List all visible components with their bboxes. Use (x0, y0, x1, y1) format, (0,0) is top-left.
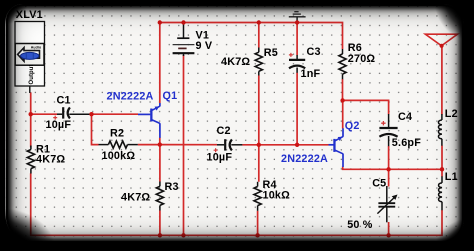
variable capacitor C5 (377, 186, 397, 222)
svg-text:1nF: 1nF (301, 68, 321, 80)
junction Q1 collector / R2 / R3 / C2 node (158, 142, 162, 146)
svg-text:C1: C1 (57, 95, 71, 107)
wire battery column (183, 55, 185, 235)
svg-text:4K7Ω: 4K7Ω (36, 154, 65, 166)
svg-text:L2: L2 (445, 108, 458, 120)
junction C3 bottom / bias row node (295, 143, 299, 147)
transistor Q2 (329, 128, 344, 167)
junction V1 bottom on ground rail (181, 233, 185, 237)
wire bias row (138, 144, 160, 146)
svg-text:Q1: Q1 (163, 90, 178, 102)
junction L2 / L1 / emitter row node (440, 167, 444, 171)
svg-text:C5: C5 (372, 178, 386, 190)
wire R6 column / Q2 collector (342, 79, 344, 100)
resistor R1 (27, 146, 34, 174)
svg-text:270Ω: 270Ω (348, 53, 376, 65)
inductor L2 (438, 114, 441, 146)
wire C1 row (31, 113, 57, 115)
junction R6 bottom / Q2 collector / C4 node (340, 98, 344, 102)
svg-text:4K7Ω: 4K7Ω (121, 191, 150, 203)
resistor R4 (254, 182, 261, 211)
resistor R3 (156, 145, 163, 236)
wire R5-R4 column (258, 23, 260, 48)
svg-text:C2: C2 (217, 125, 231, 137)
svg-text:R2: R2 (110, 128, 124, 140)
junction C4 bottom / C5 top / emitter row node (386, 167, 390, 171)
inductor L1 (439, 176, 442, 210)
svg-text:2N2222A: 2N2222A (107, 90, 154, 102)
svg-text:R3: R3 (165, 181, 179, 193)
svg-text:2N2222A: 2N2222A (281, 153, 328, 165)
svg-text:10µF: 10µF (207, 152, 233, 164)
svg-text:XLV1: XLV1 (16, 9, 43, 21)
capacitor C3 (289, 53, 305, 73)
svg-text:100kΩ: 100kΩ (102, 150, 136, 162)
svg-text:R5: R5 (264, 47, 278, 59)
junction R4 bottom on ground rail (255, 233, 259, 237)
svg-text:C4: C4 (398, 111, 412, 123)
wire R6 to C4 row (343, 100, 389, 114)
junction XLV1 output / C1 / R1 node (29, 112, 33, 116)
wire antenna column (441, 46, 443, 115)
junction R5 top on +9V rail (257, 20, 261, 24)
svg-text:10µF: 10µF (46, 119, 72, 131)
resistor R5 (255, 48, 262, 76)
svg-text:9 V: 9 V (196, 40, 213, 52)
capacitor C2 (214, 139, 243, 152)
svg-text:L1: L1 (445, 171, 458, 183)
svg-text:50 %: 50 % (347, 219, 373, 231)
svg-text:10kΩ: 10kΩ (263, 190, 291, 202)
wire C3 column (296, 23, 298, 56)
junction R5 / R4 / bias row node (257, 143, 261, 147)
resistor R6 (339, 49, 346, 79)
junction ground / C3 top on rail (295, 20, 299, 24)
capacitor C1 (53, 107, 91, 119)
wire C4 bottom / C5 top (388, 146, 390, 187)
svg-text:4K7Ω: 4K7Ω (221, 56, 250, 68)
junction C5 bottom on ground rail (386, 233, 390, 237)
resistor R2 (99, 141, 138, 148)
wire C5 bottom (388, 222, 390, 235)
transistor Q1 (138, 103, 160, 145)
junction rail corner at Q1 emitter (158, 20, 162, 24)
svg-text:C3: C3 (307, 46, 321, 58)
antenna (425, 34, 457, 48)
svg-text:Q2: Q2 (345, 120, 360, 132)
ground (289, 12, 306, 23)
battery V1 (173, 23, 195, 56)
svg-text:5.6pF: 5.6pF (392, 137, 421, 149)
junction R3 bottom on ground rail (158, 233, 162, 237)
junction V1 top on +9V rail (181, 20, 185, 24)
svg-text:Output: Output (29, 64, 35, 84)
capacitor C4 (379, 114, 397, 146)
wire emitter row Q2 (343, 167, 442, 170)
junction C1 / Q1 base / R2 node (89, 112, 93, 116)
wire top rail (160, 23, 343, 104)
wire left column (30, 92, 32, 147)
wire R2 branch (92, 114, 99, 144)
instrument XLV1 box (15, 22, 45, 94)
